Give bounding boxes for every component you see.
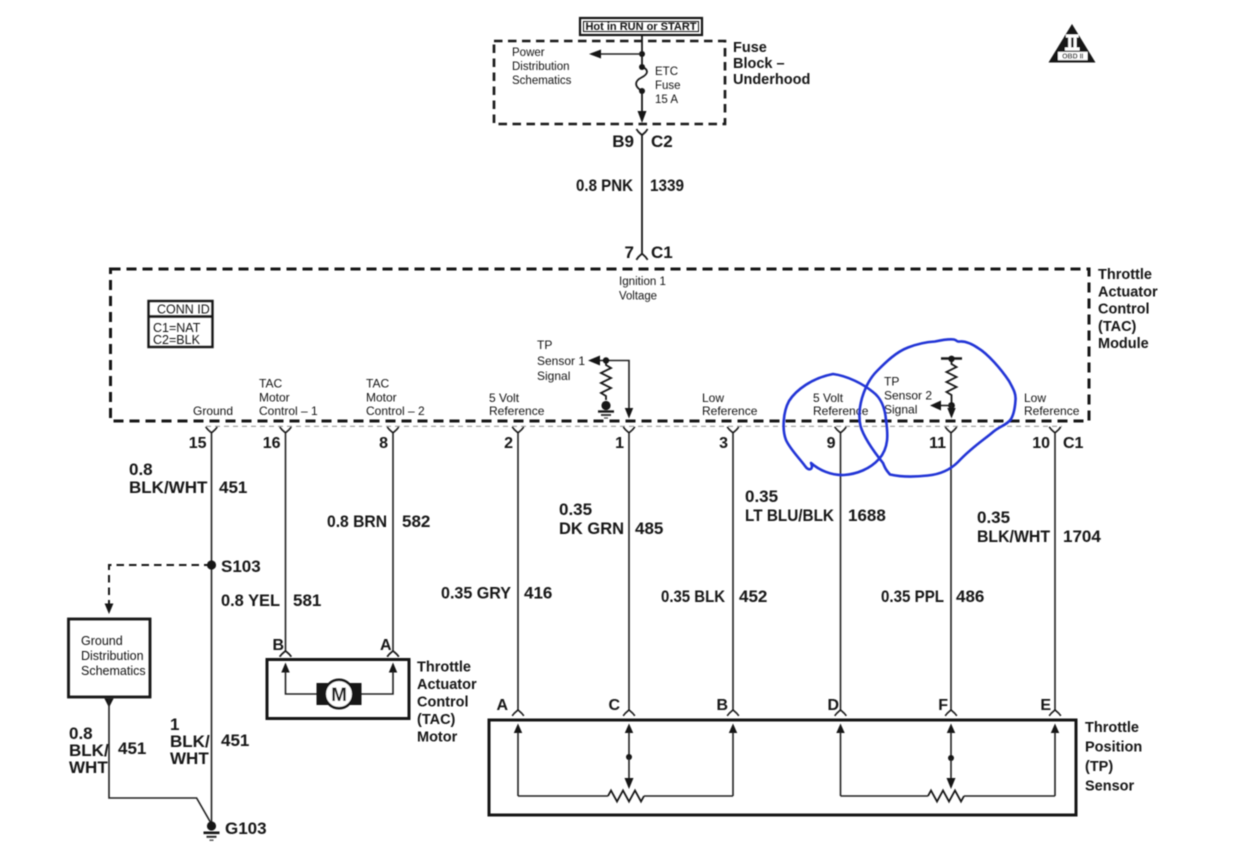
svg-text:16: 16 [263, 435, 281, 452]
svg-text:Position: Position [1085, 740, 1142, 756]
svg-text:0.35: 0.35 [745, 487, 778, 506]
svg-text:Reference: Reference [489, 404, 545, 418]
svg-text:451: 451 [219, 478, 247, 497]
svg-text:15 A: 15 A [655, 94, 678, 106]
svg-text:1: 1 [615, 435, 624, 452]
svg-text:Control: Control [1098, 302, 1150, 318]
svg-text:0.8 BRN: 0.8 BRN [327, 512, 387, 531]
svg-text:F: F [938, 697, 948, 714]
svg-text:1688: 1688 [848, 506, 886, 525]
svg-text:0.35: 0.35 [559, 500, 592, 519]
svg-text:Actuator: Actuator [417, 677, 477, 693]
svg-text:Motor: Motor [417, 730, 458, 746]
svg-text:Distribution: Distribution [81, 649, 144, 663]
svg-text:Distribution: Distribution [512, 61, 570, 73]
svg-text:Ignition 1: Ignition 1 [619, 276, 666, 288]
svg-text:451: 451 [221, 731, 249, 750]
svg-text:0.8 PNK: 0.8 PNK [576, 176, 634, 195]
svg-text:Motor: Motor [366, 391, 397, 405]
svg-text:581: 581 [293, 591, 321, 610]
svg-text:(TAC): (TAC) [417, 712, 456, 728]
svg-text:BLK/WHT: BLK/WHT [977, 527, 1051, 546]
svg-text:8: 8 [379, 435, 388, 452]
svg-text:Throttle: Throttle [417, 660, 471, 676]
svg-text:Fuse: Fuse [733, 40, 767, 56]
svg-text:CONN ID: CONN ID [157, 303, 210, 317]
svg-text:S103: S103 [221, 557, 261, 576]
svg-text:TAC: TAC [259, 377, 282, 391]
svg-text:Schematics: Schematics [512, 75, 572, 87]
svg-text:LT BLU/BLK: LT BLU/BLK [745, 506, 835, 525]
svg-text:TP: TP [884, 375, 899, 389]
svg-text:Throttle: Throttle [1098, 267, 1152, 283]
svg-text:416: 416 [524, 584, 552, 603]
svg-text:WHT: WHT [170, 749, 209, 768]
svg-text:Reference: Reference [1024, 404, 1080, 418]
svg-text:Signal: Signal [884, 403, 917, 417]
svg-text:5 Volt: 5 Volt [489, 391, 520, 405]
svg-text:Sensor: Sensor [1085, 779, 1135, 795]
svg-text:0.35 BLK: 0.35 BLK [661, 587, 726, 606]
svg-text:582: 582 [402, 512, 430, 531]
svg-text:A: A [496, 697, 508, 714]
svg-text:C2: C2 [651, 132, 673, 151]
svg-text:1339: 1339 [650, 176, 684, 195]
svg-text:0.8 YEL: 0.8 YEL [221, 591, 280, 610]
svg-text:TP: TP [537, 338, 552, 352]
svg-text:Reference: Reference [702, 404, 758, 418]
svg-text:A: A [380, 637, 392, 654]
svg-text:485: 485 [635, 519, 663, 538]
svg-text:Actuator: Actuator [1098, 284, 1158, 300]
svg-text:Low: Low [1024, 391, 1046, 405]
svg-text:0.8: 0.8 [129, 460, 153, 479]
svg-text:DK GRN: DK GRN [559, 519, 624, 538]
svg-text:D: D [827, 697, 839, 714]
svg-text:(TP): (TP) [1085, 759, 1113, 775]
svg-text:E: E [1040, 697, 1051, 714]
svg-text:9: 9 [827, 435, 836, 452]
svg-text:10: 10 [1032, 435, 1050, 452]
svg-text:C2=BLK: C2=BLK [153, 333, 201, 347]
svg-text:0.35 GRY: 0.35 GRY [441, 584, 512, 603]
svg-text:5 Volt: 5 Volt [813, 391, 844, 405]
svg-text:7: 7 [625, 243, 634, 262]
svg-text:Voltage: Voltage [619, 291, 657, 303]
svg-text:451: 451 [118, 739, 146, 758]
svg-text:Low: Low [702, 391, 724, 405]
svg-text:C1: C1 [651, 243, 673, 262]
svg-text:Sensor 2: Sensor 2 [884, 389, 932, 403]
svg-text:Motor: Motor [259, 391, 290, 405]
svg-text:(TAC): (TAC) [1098, 319, 1137, 335]
svg-text:Control – 1: Control – 1 [259, 404, 318, 418]
svg-text:Ground: Ground [193, 404, 233, 418]
svg-text:ETC: ETC [655, 66, 678, 78]
svg-text:Throttle: Throttle [1085, 720, 1139, 736]
svg-text:OBD II: OBD II [1062, 54, 1083, 61]
svg-text:BLK/WHT: BLK/WHT [129, 478, 208, 497]
svg-text:Sensor 1: Sensor 1 [537, 354, 585, 368]
svg-text:1704: 1704 [1063, 527, 1101, 546]
svg-text:Schematics: Schematics [81, 664, 146, 678]
svg-text:Fuse: Fuse [655, 80, 681, 92]
svg-text:C: C [608, 697, 620, 714]
svg-text:Power: Power [512, 47, 545, 59]
svg-text:0.35 PPL: 0.35 PPL [881, 587, 944, 606]
svg-text:Control – 2: Control – 2 [366, 404, 425, 418]
svg-text:Signal: Signal [537, 369, 570, 383]
svg-text:0.35: 0.35 [977, 508, 1010, 527]
svg-text:B: B [272, 637, 284, 654]
svg-text:WHT: WHT [69, 758, 108, 777]
svg-text:2: 2 [504, 435, 513, 452]
svg-text:3: 3 [719, 435, 728, 452]
svg-text:M: M [331, 685, 347, 706]
svg-text:B9: B9 [612, 132, 634, 151]
svg-text:Control: Control [417, 695, 469, 711]
svg-text:11: 11 [929, 435, 946, 452]
svg-text:G103: G103 [225, 819, 267, 838]
svg-text:486: 486 [956, 587, 984, 606]
svg-text:Ground: Ground [81, 634, 123, 648]
svg-text:452: 452 [739, 587, 767, 606]
svg-text:C1: C1 [1063, 435, 1084, 452]
svg-text:Module: Module [1098, 336, 1149, 352]
svg-text:B: B [716, 697, 728, 714]
svg-text:Hot in RUN or START: Hot in RUN or START [585, 21, 696, 33]
svg-text:TAC: TAC [366, 377, 389, 391]
svg-text:Block –: Block – [733, 56, 785, 72]
svg-text:15: 15 [189, 435, 207, 452]
svg-text:Underhood: Underhood [733, 72, 810, 88]
